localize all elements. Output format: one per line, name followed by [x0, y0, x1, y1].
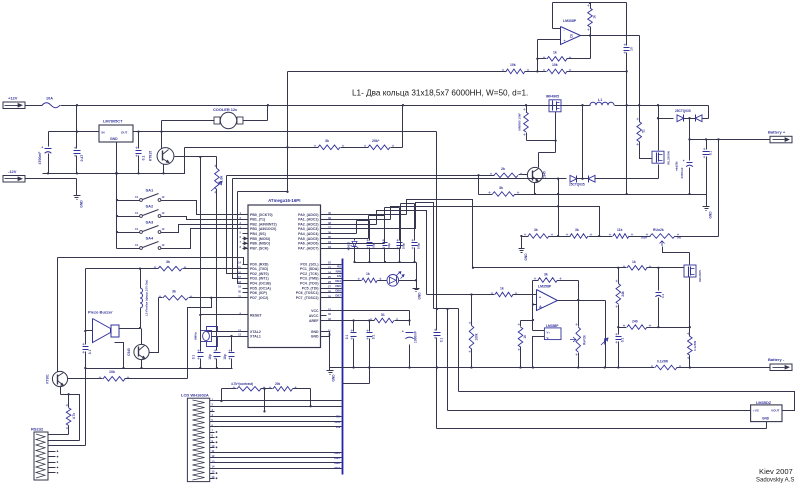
svg-text:0.1: 0.1	[709, 151, 713, 156]
svg-text:R/W: R/W	[336, 269, 342, 273]
svg-text:AVCC: AVCC	[309, 314, 319, 318]
svg-text:PC7_(TOSC2): PC7_(TOSC2)	[296, 296, 319, 300]
svg-text:25CTQ035: 25CTQ035	[569, 183, 585, 187]
svg-text:RUн2k: RUн2k	[653, 228, 664, 232]
svg-text:3k: 3k	[499, 186, 503, 190]
svg-text:3k: 3k	[544, 273, 548, 277]
svg-text:1n: 1n	[630, 47, 634, 51]
svg-text:GND: GND	[709, 211, 713, 219]
svg-text:PA1_(ADC1): PA1_(ADC1)	[298, 218, 318, 222]
svg-text:PA4_(ADC4): PA4_(ADC4)	[298, 232, 318, 236]
svg-text:2k: 2k	[501, 167, 505, 171]
svg-text:MNR80 10W: MNR80 10W	[518, 113, 522, 130]
svg-text:KT361: KT361	[46, 374, 50, 384]
svg-text:PD3_(INT1): PD3_(INT1)	[250, 277, 269, 281]
svg-text:R/W: R/W	[335, 420, 341, 424]
svg-text:Rн=2k: Rн=2k	[583, 335, 587, 345]
svg-text:4700mF: 4700mF	[38, 152, 42, 165]
svg-text:LM358P: LM358P	[538, 285, 552, 289]
svg-text:AREF: AREF	[309, 319, 319, 323]
svg-text:LM35DZ: LM35DZ	[756, 400, 772, 405]
svg-text:Piezo Buzzer: Piezo Buzzer	[88, 310, 113, 315]
svg-text:+: +	[564, 39, 566, 43]
svg-text:4.7k: 4.7k	[72, 413, 76, 419]
svg-text:0.1: 0.1	[142, 156, 146, 161]
svg-text:DB5: DB5	[334, 456, 340, 460]
svg-text:DB7: DB7	[334, 466, 340, 470]
svg-text:100k: 100k	[475, 333, 479, 340]
svg-text:4.7k*(contrast): 4.7k*(contrast)	[231, 382, 253, 386]
svg-text:Kiev 2007: Kiev 2007	[759, 467, 793, 476]
svg-text:+: +	[539, 296, 541, 300]
svg-text:GND: GND	[762, 417, 770, 421]
svg-text:GND: GND	[524, 253, 528, 261]
svg-text:3k: 3k	[172, 290, 176, 294]
svg-text:PB4_(SS): PB4_(SS)	[250, 232, 266, 236]
svg-text:LM308P: LM308P	[563, 19, 577, 23]
svg-text:3k: 3k	[166, 260, 170, 264]
svg-text:IRF2405: IRF2405	[698, 270, 702, 282]
svg-text:RS: RS	[336, 415, 340, 419]
svg-text:-12V: -12V	[8, 169, 17, 174]
svg-text:PA0_(ADC0): PA0_(ADC0)	[298, 213, 318, 217]
svg-text:DB6: DB6	[335, 289, 341, 293]
svg-text:1k: 1k	[523, 335, 527, 339]
svg-text:PC1_(SDA): PC1_(SDA)	[300, 267, 318, 271]
svg-text:0.47: 0.47	[80, 155, 84, 162]
svg-text:25CTQ035: 25CTQ035	[675, 109, 691, 113]
svg-text:GND: GND	[110, 137, 118, 141]
svg-text:PC0_(SCL): PC0_(SCL)	[300, 262, 318, 266]
svg-text:SA1: SA1	[146, 188, 155, 193]
svg-text:240: 240	[632, 320, 638, 324]
svg-text:Battery +: Battery +	[768, 130, 786, 135]
svg-text:PC5_(TDI): PC5_(TDI)	[302, 286, 319, 290]
svg-text:VOUT: VOUT	[771, 409, 780, 413]
svg-text:0.1x5W: 0.1x5W	[693, 341, 697, 352]
svg-text:10k: 10k	[510, 63, 516, 67]
svg-text:PD1_(TXD): PD1_(TXD)	[250, 267, 268, 271]
svg-text:COOLER 12v: COOLER 12v	[213, 107, 238, 112]
svg-text:PA3_(ADC3): PA3_(ADC3)	[298, 227, 318, 231]
svg-text:18p: 18p	[223, 354, 227, 360]
svg-text:C945: C945	[543, 171, 547, 179]
svg-text:C1: C1	[135, 243, 139, 247]
svg-text:3300mF: 3300mF	[680, 167, 684, 178]
svg-text:OUT: OUT	[121, 131, 128, 135]
svg-text:RESET: RESET	[250, 313, 263, 317]
svg-text:PD7_(OC2): PD7_(OC2)	[250, 296, 268, 300]
svg-text:+VS: +VS	[753, 409, 759, 413]
svg-text:PA7_(ADC7): PA7_(ADC7)	[298, 246, 318, 250]
svg-text:SA2: SA2	[146, 204, 155, 209]
svg-text:Battery -: Battery -	[768, 357, 785, 362]
svg-text:1k: 1k	[632, 260, 636, 264]
svg-text:PC4_(TDO): PC4_(TDO)	[300, 282, 318, 286]
svg-text:10k: 10k	[109, 370, 115, 374]
svg-text:V+: V+	[547, 331, 551, 335]
svg-text:Sadovskiy A.S: Sadovskiy A.S	[756, 478, 794, 484]
svg-text:PB0_(XCKT0): PB0_(XCKT0)	[250, 213, 273, 217]
svg-text:1k: 1k	[500, 287, 504, 291]
svg-text:10k: 10k	[552, 63, 558, 67]
svg-text:RS: RS	[337, 265, 341, 269]
svg-text:PD0_(RXD): PD0_(RXD)	[250, 262, 268, 266]
svg-text:PD5_(OC1A): PD5_(OC1A)	[250, 286, 271, 290]
svg-text:+: +	[683, 159, 685, 163]
svg-text:0.1: 0.1	[621, 338, 625, 343]
svg-text:3k: 3k	[534, 228, 538, 232]
svg-text:PD2_(INT0): PD2_(INT0)	[250, 272, 269, 276]
svg-text:20k*: 20k*	[372, 139, 380, 143]
svg-text:GND: GND	[80, 200, 84, 208]
svg-text:PC3_(TMS): PC3_(TMS)	[300, 277, 318, 281]
svg-text:10A: 10A	[46, 97, 53, 101]
svg-text:0.1: 0.1	[372, 335, 376, 340]
svg-text:LM7805CT: LM7805CT	[103, 119, 123, 124]
svg-text:0.1: 0.1	[440, 338, 444, 343]
svg-text:PB6_(MISO): PB6_(MISO)	[250, 242, 270, 246]
svg-text:11k: 11k	[617, 228, 623, 232]
svg-text:51: 51	[642, 129, 646, 133]
svg-text:0.1: 0.1	[661, 294, 665, 299]
svg-text:18p: 18p	[208, 354, 212, 360]
svg-text:GND: GND	[332, 374, 336, 382]
svg-text:RS232: RS232	[31, 426, 44, 431]
svg-text:0.1: 0.1	[345, 335, 349, 340]
svg-text:3k: 3k	[575, 228, 579, 232]
svg-text:C945: C945	[127, 348, 131, 356]
svg-text:LM358P: LM358P	[546, 324, 559, 328]
svg-text:PB3_(AIN1OC0): PB3_(AIN1OC0)	[250, 227, 276, 231]
svg-text:1k: 1k	[553, 51, 557, 55]
svg-text:ATmega16-16PI: ATmega16-16PI	[268, 198, 300, 203]
svg-text:VCC: VCC	[311, 309, 319, 313]
svg-text:SA4: SA4	[146, 236, 155, 241]
svg-text:C1: C1	[135, 195, 139, 199]
svg-text:C1: C1	[135, 211, 139, 215]
svg-text:DB5: DB5	[335, 284, 341, 288]
svg-text:0.1: 0.1	[88, 350, 92, 355]
svg-text:mkb25b: mkb25b	[676, 161, 679, 171]
svg-text:1k: 1k	[366, 272, 370, 276]
svg-text:PA6_(ADC6): PA6_(ADC6)	[298, 242, 318, 246]
svg-text:100p: 100p	[402, 243, 406, 249]
svg-text:IRL2505N: IRL2505N	[667, 151, 671, 165]
svg-text:20k: 20k	[275, 382, 281, 386]
svg-text:IN: IN	[102, 131, 105, 135]
svg-text:0.1: 0.1	[192, 355, 196, 360]
svg-text:A: A	[539, 304, 542, 309]
svg-text:SA3: SA3	[146, 220, 155, 225]
svg-text:51: 51	[381, 313, 385, 317]
svg-text:L2-Любая (ферр.100 Ом): L2-Любая (ферр.100 Ом)	[145, 280, 149, 316]
svg-text:24k: 24k	[621, 291, 625, 297]
svg-text:PB1_(T1): PB1_(T1)	[250, 218, 265, 222]
svg-text:+12V: +12V	[8, 96, 18, 101]
svg-text:022R: 022R	[641, 236, 647, 240]
svg-text:EN: EN	[336, 425, 340, 429]
svg-text:3k: 3k	[325, 139, 329, 143]
svg-text:1k: 1k	[593, 15, 597, 19]
svg-text:PB7_(SCK): PB7_(SCK)	[250, 246, 268, 250]
svg-text:KT815: KT815	[149, 151, 153, 161]
svg-text:IRF4905: IRF4905	[546, 95, 559, 99]
svg-text:8MHz: 8MHz	[194, 332, 198, 340]
svg-text:DB4: DB4	[335, 279, 341, 283]
svg-text:8: 8	[570, 34, 573, 40]
svg-text:PC2_(TCK): PC2_(TCK)	[300, 272, 318, 276]
svg-text:PB2_(AIN0INT2): PB2_(AIN0INT2)	[250, 222, 277, 226]
svg-text:DB6: DB6	[334, 461, 340, 465]
svg-text:1000mF: 1000mF	[414, 331, 418, 343]
svg-text:DB7: DB7	[335, 293, 341, 297]
svg-text:PC6_(TOSC1): PC6_(TOSC1)	[296, 291, 319, 295]
svg-text:DB4: DB4	[334, 451, 340, 455]
svg-text:+: +	[41, 146, 43, 150]
svg-text:PA2_(ADC2): PA2_(ADC2)	[298, 222, 318, 226]
svg-text:EN: EN	[337, 274, 341, 278]
svg-text:V-: V-	[547, 336, 550, 340]
svg-text:KD522: KD522	[347, 241, 351, 250]
svg-text:LCD WH1602A: LCD WH1602A	[181, 393, 209, 398]
svg-text:0.1x5W: 0.1x5W	[657, 360, 668, 364]
svg-text:GND: GND	[418, 292, 422, 300]
svg-text:PD4_(OC1B): PD4_(OC1B)	[250, 282, 271, 286]
svg-text:GND: GND	[311, 334, 319, 338]
svg-text:C1: C1	[135, 227, 139, 231]
svg-text:PA5_(ADC5): PA5_(ADC5)	[298, 237, 318, 241]
svg-text:PB5_(MOSI): PB5_(MOSI)	[250, 237, 270, 241]
svg-text:L1- Два кольца 31x18,5x7 6000Н: L1- Два кольца 31x18,5x7 6000НН, W=50, d…	[352, 89, 528, 98]
svg-text:+: +	[402, 330, 404, 334]
svg-text:PD6_(ICP): PD6_(ICP)	[250, 291, 267, 295]
svg-text:100p: 100p	[417, 243, 421, 249]
svg-text:L1: L1	[598, 98, 602, 102]
svg-text:XTAL1: XTAL1	[250, 334, 261, 338]
